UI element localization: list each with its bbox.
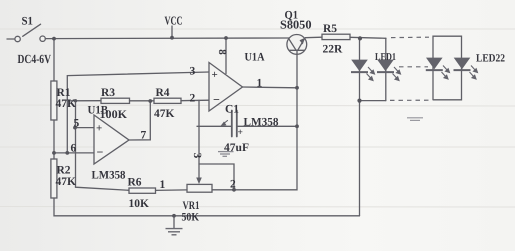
arrow mark on C1 wire (223, 121, 228, 125)
resistor R5 (322, 34, 350, 39)
wire R3 left lead (67, 100, 101, 102)
wire rail from Q1 to R5 (306, 36, 323, 39)
svg-text:R4: R4 (156, 87, 170, 99)
wire stub left of S1 (7, 38, 15, 40)
svg-text:DC4-6V: DC4-6V (18, 52, 52, 66)
op-amp U1A (209, 63, 243, 112)
junction pin 8 stub (224, 36, 228, 40)
ground symbol (bottom) (166, 229, 183, 235)
resistor R3 (101, 98, 130, 103)
svg-text:−: − (97, 145, 104, 159)
VR1 wiper arrowhead (196, 178, 202, 185)
wire R3-R4 (130, 100, 155, 102)
Q1 collector stroke (288, 38, 296, 50)
wire R2 bottom to ground rail (54, 198, 360, 216)
dashed wire LED string continuation bottom (390, 99, 429, 101)
wire U1A pin8 (225, 38, 227, 74)
svg-text:+: + (96, 123, 102, 135)
LED (first) cathode bar (351, 71, 368, 73)
junction R5 / LED string top (358, 36, 362, 40)
wire LED bottom box (360, 100, 386, 102)
junction R1 / pin 6 line (52, 151, 56, 155)
svg-text:10K: 10K (129, 198, 150, 210)
junction ground tap (172, 214, 176, 218)
svg-text:50K: 50K (182, 212, 200, 224)
wire pin6 line (54, 152, 94, 154)
junction at S1 / R1 / rail (52, 37, 56, 41)
svg-text:VCC: VCC (165, 14, 183, 28)
wire Q1 base vertical / main node (212, 50, 297, 190)
svg-text:47K: 47K (56, 98, 77, 110)
svg-text:+: + (212, 69, 218, 81)
junction feedback / pin 6 line (65, 151, 69, 155)
LED emission arrows (next-to-last LED) (442, 66, 450, 80)
wire pin5 (76, 127, 95, 129)
LED (first of parallel string) triangle (351, 60, 368, 72)
junction R3 / R4 / pin 7 (148, 99, 152, 103)
junction LED string bottom (357, 99, 361, 103)
junction pin 5 (73, 126, 77, 130)
junction R3 left node (74, 99, 77, 102)
wire right LED box (433, 36, 462, 100)
svg-text:22R: 22R (323, 44, 344, 56)
wire R1 bottom lead (53, 120, 55, 153)
LED LED1 triangle (377, 60, 394, 72)
arrowhead on C1 wire mark (221, 122, 227, 127)
svg-text:1: 1 (257, 78, 263, 90)
svg-text:LM358: LM358 (92, 170, 126, 182)
wire R5 to LED junction (350, 37, 386, 38)
wire top rail (45, 37, 288, 40)
svg-text:100K: 100K (100, 109, 128, 121)
LED emission arrows (first LED) (367, 67, 375, 81)
LED (next-to-last) cathode bar (426, 69, 443, 71)
svg-text:7: 7 (141, 130, 147, 142)
wire VCC stub (171, 26, 173, 38)
resistor R6 (129, 188, 156, 193)
ground symbol (near C1) (218, 152, 234, 157)
svg-text:1: 1 (160, 179, 166, 191)
LED emission arrows (LED22) (470, 66, 478, 80)
dashed wire LED string continuation top (391, 36, 429, 38)
junction C1 / output node (295, 124, 299, 128)
svg-text:3: 3 (191, 153, 203, 159)
resistor R4 (154, 98, 181, 103)
svg-text:47uF: 47uF (224, 142, 249, 154)
transistor Q1 (287, 35, 307, 55)
capacitor C1 plates (232, 111, 237, 137)
svg-text:LM358: LM358 (244, 117, 279, 129)
S1 blade (23, 24, 41, 36)
LED string left verticals (359, 38, 361, 215)
svg-text:LED22: LED22 (476, 53, 505, 65)
svg-text:3: 3 (190, 66, 196, 78)
resistor R1 (51, 81, 57, 120)
LED emission arrows (LED1) (393, 67, 401, 81)
svg-text:2: 2 (230, 179, 236, 191)
switch S1 (15, 24, 45, 42)
wire U1A pin1 output (243, 86, 298, 89)
svg-text:R6: R6 (128, 177, 142, 189)
wire U1B pin7 output (129, 101, 150, 140)
junction VCC stub (170, 36, 174, 40)
svg-text:S1: S1 (22, 16, 34, 28)
Q1 emitter stroke (298, 38, 305, 50)
svg-text:+: + (238, 128, 243, 138)
LED LED22 cathode bar (454, 69, 471, 71)
wire R4 right to U1A pin2 (181, 99, 209, 102)
Q1 base bar (289, 49, 304, 51)
wire vertical B down to R6 (76, 101, 130, 191)
svg-text:R5: R5 (323, 23, 337, 35)
ground stub bottom (173, 216, 175, 228)
wire R1 top lead (53, 39, 55, 82)
wire vertical A (U1A pin3 feedback) (67, 72, 209, 153)
svg-text:8: 8 (216, 49, 228, 55)
svg-text:U1A: U1A (245, 52, 266, 64)
S1 left contact (15, 36, 20, 41)
svg-text:S8050: S8050 (280, 18, 312, 32)
svg-text:R2: R2 (57, 165, 71, 177)
junction VR1 pin 2 (232, 188, 236, 192)
svg-text:2: 2 (190, 93, 196, 105)
Q1 emitter arrowhead (300, 38, 305, 45)
junction pin 1 output node (295, 86, 299, 90)
resistor R2 (51, 159, 57, 198)
wire R6 right to VR1 (156, 189, 188, 192)
S1 right contact (40, 36, 45, 41)
dashed wire LED string continuation middle (399, 66, 428, 68)
svg-text:47K: 47K (154, 108, 175, 120)
resistor VR1 body (187, 184, 212, 192)
op-amp U1B (94, 115, 129, 164)
svg-text:LED1: LED1 (375, 52, 396, 63)
LED (next-to-last of string) triangle (426, 58, 443, 70)
svg-text:VR1: VR1 (183, 200, 200, 212)
svg-text:C1: C1 (225, 104, 239, 116)
wire wiper bracket (199, 164, 234, 190)
capacitor C1 left wire (197, 125, 231, 127)
wire pin2 node down to VR1 wiper (198, 100, 200, 180)
svg-text:47K: 47K (56, 176, 77, 188)
LED LED22 triangle (454, 58, 471, 70)
svg-text:5: 5 (74, 118, 80, 130)
svg-text:−: − (213, 93, 220, 107)
LED LED1 cathode bar (377, 71, 394, 73)
svg-text:6: 6 (71, 143, 77, 155)
capacitor C1 right wire (238, 125, 297, 127)
continuation mark under LED row (407, 118, 423, 121)
svg-text:R3: R3 (101, 87, 115, 99)
